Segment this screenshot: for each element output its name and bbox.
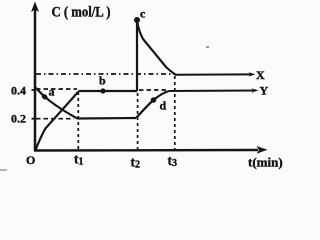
curve X: vertical jump at t2 — [136, 20, 138, 91]
svg-text:t(min): t(min) — [248, 155, 283, 170]
curve Y: flat equilibrium line to right arrow — [169, 90, 255, 93]
svg-text:c: c — [140, 7, 146, 21]
dashed vertical at t3 — [174, 76, 176, 149]
svg-text:Y: Y — [260, 84, 269, 98]
y tick 0.4 — [32, 89, 36, 91]
arrowhead of Y line — [252, 88, 259, 92]
curve Y: flat at 0.2 from t1 to t2 — [78, 117, 136, 120]
point a — [41, 93, 49, 101]
curve X: rise from origin to 0.4 at t1 — [36, 92, 79, 151]
point c — [134, 17, 140, 23]
svg-text:0.4: 0.4 — [11, 84, 26, 98]
curve Y: rise from t2 through d to 0.4 at t3 — [136, 91, 169, 118]
svg-text:O: O — [26, 153, 35, 167]
curve X: flat equilibrium line to right arrow — [175, 73, 252, 75]
dashed horizontal line at X equilibrium level — [36, 73, 174, 75]
dashed horizontal 0.4 level left of t1 — [36, 88, 77, 90]
dashed horizontal 0.2 level left of t1 — [36, 118, 74, 120]
svg-text:C ( mol/L ): C ( mol/L ) — [52, 5, 111, 21]
dashed vertical at t1 — [77, 92, 79, 149]
arrowhead of X line — [249, 72, 256, 76]
svg-text:d: d — [160, 99, 167, 113]
curve X: decay from c to new equilibrium — [137, 20, 176, 75]
curve X: flat at 0.4 from t1 to t2 — [79, 90, 138, 92]
x-axis — [34, 146, 268, 154]
dashed horizontal 0.4 level between t2 and t3 — [139, 89, 167, 91]
point d — [151, 97, 157, 103]
scan speckle near top right — [206, 46, 209, 48]
y tick 0.2 — [32, 118, 36, 120]
dashed vertical at t2 — [137, 93, 139, 149]
svg-text:b: b — [99, 74, 106, 88]
scan speckle bottom left edge — [0, 169, 7, 171]
y-axis — [31, 2, 39, 152]
curve Y: decline from 0.4 to 0.2 at t1 — [36, 88, 79, 119]
svg-text:a: a — [49, 85, 55, 99]
svg-text:X: X — [256, 68, 265, 82]
svg-text:0.2: 0.2 — [11, 112, 26, 126]
point b — [100, 88, 105, 93]
